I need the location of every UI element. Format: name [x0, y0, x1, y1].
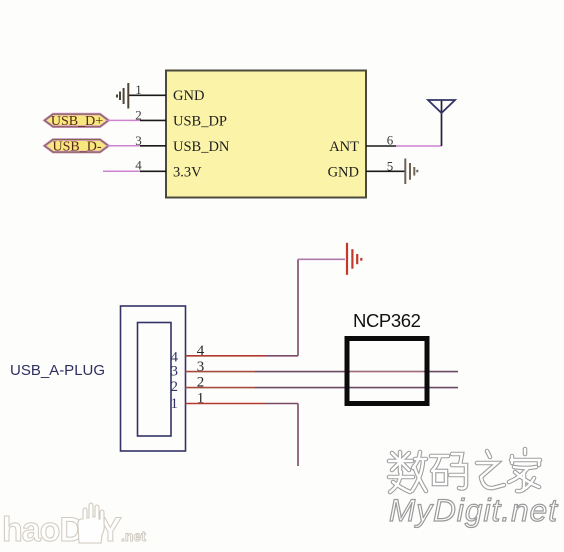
- svg-text:2: 2: [171, 379, 179, 395]
- svg-text:ANT: ANT: [329, 139, 359, 155]
- svg-text:USB_D+: USB_D+: [51, 114, 103, 129]
- svg-text:USB_D-: USB_D-: [52, 139, 101, 154]
- svg-text:.net: .net: [121, 528, 146, 544]
- svg-text:3.3V: 3.3V: [173, 165, 202, 181]
- svg-text:NCP362: NCP362: [353, 310, 421, 331]
- svg-text:4: 4: [197, 343, 205, 359]
- svg-text:1: 1: [171, 396, 179, 412]
- svg-text:GND: GND: [173, 88, 204, 104]
- svg-text:USB_A-PLUG: USB_A-PLUG: [10, 362, 105, 379]
- svg-text:4: 4: [135, 158, 142, 173]
- svg-text:USB_DP: USB_DP: [173, 114, 227, 130]
- svg-text:3: 3: [197, 359, 205, 375]
- svg-text:3: 3: [171, 364, 179, 380]
- svg-text:GND: GND: [328, 165, 359, 181]
- svg-text:USB_DN: USB_DN: [173, 139, 230, 155]
- svg-text:haoD: haoD: [2, 511, 83, 549]
- svg-text:MyDigit.net: MyDigit.net: [389, 492, 558, 528]
